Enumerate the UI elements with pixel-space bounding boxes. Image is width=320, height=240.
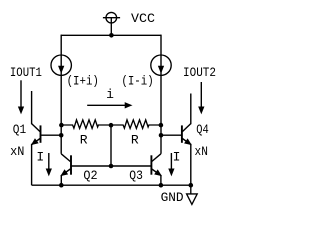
wire Q1 emitter down bbox=[31, 144, 33, 185]
wire Q3 emitter down bbox=[160, 175, 162, 185]
svg-text:i: i bbox=[106, 87, 114, 102]
current arrow I left bbox=[46, 153, 51, 175]
junction dot right column base bbox=[159, 133, 164, 138]
junction dot at VCC stub bbox=[109, 33, 114, 38]
current arrow I right bbox=[169, 153, 174, 175]
svg-text:Q2: Q2 bbox=[83, 168, 97, 183]
svg-text:VCC: VCC bbox=[131, 11, 155, 26]
svg-text:R: R bbox=[131, 133, 139, 148]
svg-text:(I-i): (I-i) bbox=[121, 73, 153, 88]
wire left column bbox=[60, 35, 62, 154]
node IOUT2 wire bbox=[190, 94, 192, 125]
junction dot Q2 emitter bbox=[59, 183, 64, 188]
wire center vertical bbox=[110, 125, 112, 166]
transistor Q2 bbox=[61, 154, 111, 176]
transistor Q1 bbox=[32, 124, 62, 145]
svg-text:IOUT1: IOUT1 bbox=[10, 65, 42, 80]
junction dot Q3 emitter bbox=[159, 183, 164, 188]
svg-text:I: I bbox=[173, 150, 181, 165]
ground symbol bbox=[187, 185, 198, 204]
svg-text:xN: xN bbox=[10, 144, 24, 159]
wire Q2 emitter down bbox=[60, 175, 62, 185]
wire bottom rail bbox=[32, 184, 191, 186]
svg-text:Q3: Q3 bbox=[129, 168, 143, 183]
IOUT1 current arrow bbox=[19, 80, 24, 113]
junction dot base node bbox=[109, 164, 114, 169]
svg-text:GND: GND bbox=[161, 190, 184, 205]
resistor R left bbox=[61, 120, 111, 128]
transistor Q4 bbox=[161, 124, 191, 145]
current arrow i bbox=[87, 103, 131, 108]
svg-text:(I+i): (I+i) bbox=[67, 73, 99, 88]
junction dot GND stub bbox=[189, 183, 194, 188]
svg-text:xN: xN bbox=[195, 144, 208, 159]
transistor Q3 bbox=[111, 154, 161, 176]
svg-text:Q1: Q1 bbox=[13, 122, 27, 137]
svg-text:Q4: Q4 bbox=[196, 122, 209, 137]
wire top rail bbox=[61, 34, 161, 36]
resistor R right bbox=[111, 120, 161, 128]
svg-text:I: I bbox=[36, 150, 44, 165]
wire Q4 emitter down bbox=[190, 144, 192, 185]
current source I1 (I+i) bbox=[51, 55, 71, 75]
wire right column bbox=[160, 35, 162, 154]
junction dot right column resistor bbox=[159, 123, 164, 128]
svg-text:IOUT2: IOUT2 bbox=[183, 65, 216, 80]
junction dot left column base bbox=[59, 133, 64, 138]
IOUT2 current arrow bbox=[199, 82, 204, 113]
node IOUT1 wire bbox=[31, 91, 33, 124]
current source I2 (I-i) bbox=[151, 55, 171, 75]
junction dot left column resistor bbox=[59, 123, 64, 128]
power VCC symbol bbox=[103, 12, 120, 35]
junction dot mid resistors bbox=[109, 123, 114, 128]
svg-text:R: R bbox=[80, 133, 88, 148]
